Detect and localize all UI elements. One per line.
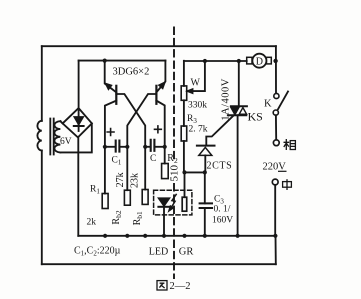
svg-text:3DG6×2: 3DG6×2 [113,67,150,78]
svg-text:K: K [264,99,272,110]
LED light arrow [169,194,176,210]
wire secondary top to bridge left vertex [60,121,62,123]
bridge rectifier diamond [63,108,92,137]
node: rail KS [236,234,240,238]
svg-text:510: 510 [168,164,180,181]
transistor V2 emitter lead [157,61,166,93]
svg-text:GR: GR [179,247,194,258]
node: C1 right [125,145,129,149]
motor D circle [252,54,266,68]
label 220V with underline [263,162,287,173]
transistor V1 emitter lead [105,61,117,93]
wire secondary bottom to bridge right vertex [60,123,91,152]
capacitor C1 right wire [119,146,127,148]
transformer core [50,119,53,155]
motor D left brush [247,57,252,64]
svg-text:W: W [191,78,201,89]
terminal phase (xiang) [273,140,279,146]
svg-text:C: C [150,154,156,164]
node: rail R1 [103,234,107,238]
wire lower rail to bottom border [275,236,277,264]
capacitor C1 left wire [105,146,115,148]
node: motor rail / KS anode [237,59,241,63]
svg-text:D: D [256,56,263,67]
wire left border lower [41,151,43,265]
capacitor C1 plates [116,141,120,152]
svg-text:160V: 160V [212,216,233,226]
capacitor C3 bottom lead [204,208,206,236]
svg-text:2CTS: 2CTS [207,161,233,172]
capacitor C3 top lead [204,172,206,203]
thyristor KS gate lead [206,116,233,145]
resistor R2 leads [164,147,166,164]
svg-text:LED: LED [149,247,168,258]
wire R3 to gate node [183,141,185,172]
resistor Rb1 leads [144,147,146,190]
transformer T primary winding [37,121,41,151]
transistor V2 emitter arrow [159,83,164,89]
optocoupler dashed box [154,190,192,215]
capacitor C2 plus sign [155,126,162,133]
LED symbol [158,198,169,207]
wire bottom border [42,263,276,265]
motor D right brush [266,57,271,64]
transistor V1 base bar [115,86,117,104]
capacitor C2 left wire [145,146,150,148]
bridge internal diode [74,111,84,132]
svg-text:1A/400V: 1A/400V [220,78,231,121]
wire top border [42,45,276,47]
potentiometer W wiper [188,61,205,93]
label xiang (phase) drawn strokes [284,139,296,150]
svg-text:6V: 6V [60,137,72,147]
transistor V1 base lead to cross [116,94,145,147]
resistor Rb2 body [124,190,130,205]
wire gate node link [185,171,205,173]
wire neutral terminal to lower rail [274,185,276,236]
wire switch to phase terminal [275,115,277,140]
node: upper rail / V1 emitter [103,59,107,63]
svg-text:27k: 27k [115,172,126,187]
node: rail C3 [203,234,207,238]
resistor R3 body [181,126,187,141]
svg-text:330k: 330k [188,101,207,111]
switch K lever [278,92,288,110]
wire LED bottom to lower rail [163,207,165,236]
thyristor KS cathode lead to lower rail [237,115,239,236]
wire left border upper [41,46,43,121]
resistor R1 body [102,194,108,209]
diode 2CTS symbol [197,146,215,156]
svg-text:2. 7k: 2. 7k [189,125,208,135]
node: gate link right [203,170,207,174]
thyristor KS symbol [228,106,247,115]
photoresistor GR body [182,197,187,211]
resistor R1 leads [104,147,106,194]
node: rail GR [182,234,186,238]
label zhong (neutral) drawn strokes [283,179,292,190]
transistor V1 emitter arrow [106,84,111,89]
node: C2 left [143,145,147,149]
wire motor rail [184,60,247,62]
capacitor C2 right wire [154,146,164,148]
svg-text:23k: 23k [129,173,140,188]
svg-text:0. 1/: 0. 1/ [214,205,231,215]
node: C1 left [103,145,107,149]
thyristor KS anode lead [238,61,240,106]
node: rail LED [162,234,166,238]
wire W column top [183,61,185,86]
potentiometer W body [181,86,187,100]
node: C2 right [163,145,167,149]
wire bridge top to upper rail [78,61,80,109]
transistor V2 base lead to cross [127,94,156,147]
svg-text:2k: 2k [87,218,97,228]
terminal neutral (zhong) [272,179,278,185]
capacitor C2 plates [151,140,155,151]
wire lower rail [78,235,275,237]
svg-text:2—2: 2—2 [170,281,191,292]
node: rail neutral [273,234,277,238]
caption figure 2-2: tu character drawn [157,281,167,290]
node: motor right / border [273,59,277,63]
wire 2CTS to gate node [204,155,206,172]
capacitor C3 plates [200,203,212,208]
photoresistor GR leads [184,172,186,197]
transistor V2 collector lead [156,101,164,147]
transformer T secondary winding [54,121,60,152]
transistor V2 base bar [155,86,157,104]
resistor Rb2 leads [126,147,128,190]
wire right border upper (to switch) [275,46,277,93]
svg-text:KS: KS [248,110,263,124]
capacitor C1 plus sign [107,129,114,136]
resistor R2 body [162,164,169,179]
switch K lower contact [273,110,278,115]
switch K upper contact [274,93,279,98]
node: rail Rb1 [143,234,147,238]
resistor Rb1 body [142,190,148,205]
wire upper rail of multivibrator [79,60,166,62]
wire W to R3 [183,100,185,126]
transistor V1 collector lead [105,101,116,147]
node: motor rail / wiper [203,59,207,63]
separation dashed line [173,28,175,162]
node: rail Rb2 [125,234,129,238]
node: gate link left [182,170,186,174]
wire bridge bottom down to lower rail [77,137,79,235]
